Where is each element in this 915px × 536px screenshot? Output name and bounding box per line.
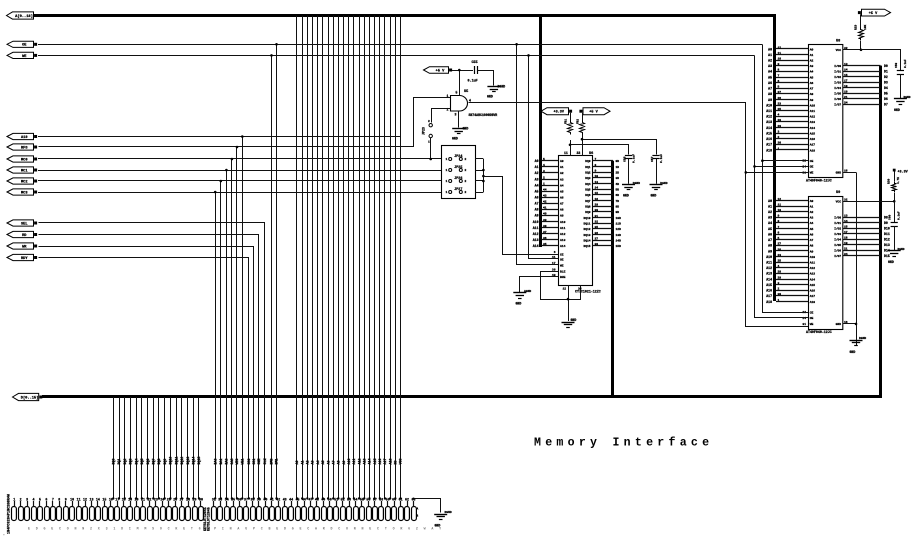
connector pad 24 — [161, 507, 166, 521]
junction — [225, 497, 227, 499]
svg-text:8D: 8D — [616, 205, 620, 208]
junction — [241, 497, 243, 499]
svg-text:OE: OE — [560, 258, 564, 261]
svg-text:A2: A2 — [810, 60, 814, 63]
svg-text:4D: 4D — [616, 183, 620, 186]
pin IO7 U9 — [843, 255, 881, 257]
connector pad 20 — [135, 507, 140, 521]
wire data bit — [198, 397, 200, 499]
svg-text:A4: A4 — [560, 184, 564, 187]
capacitor C57 — [652, 155, 659, 157]
svg-text:DQ5: DQ5 — [585, 188, 590, 191]
svg-text:DQ0: DQ0 — [585, 160, 590, 163]
junction — [482, 180, 485, 183]
wire data bit — [181, 397, 183, 499]
svg-text:I/O6: I/O6 — [834, 249, 841, 253]
junction — [389, 497, 391, 499]
pin DQ3 U6 — [593, 177, 614, 179]
pin A7 U8 — [776, 88, 808, 90]
svg-text:13D: 13D — [616, 234, 622, 237]
svg-text:SEL: SEL — [21, 222, 27, 226]
svg-text:A7: A7 — [810, 88, 814, 91]
svg-text:9: 9 — [778, 215, 780, 218]
pin IO0 U8 — [843, 65, 881, 67]
junction — [231, 497, 233, 499]
connector pad 36 — [238, 507, 243, 521]
svg-text:A16: A16 — [766, 289, 772, 293]
ground C60 — [888, 250, 901, 252]
pin A8 U6 — [542, 209, 559, 211]
svg-text:A6: A6 — [810, 233, 814, 236]
svg-text:A10: A10 — [810, 256, 816, 259]
wire RDY — [39, 258, 249, 499]
svg-text:2: 2 — [428, 120, 430, 123]
wire data bit — [113, 397, 115, 499]
pin A4 U6 — [542, 185, 559, 187]
svg-text:14D: 14D — [616, 239, 622, 242]
svg-text:5D: 5D — [616, 188, 620, 191]
svg-text:A14: A14 — [810, 278, 816, 281]
svg-text:A8: A8 — [810, 245, 814, 248]
svg-text:A8: A8 — [535, 208, 539, 212]
junction — [348, 497, 350, 499]
wire MC2 — [38, 180, 442, 182]
junction — [152, 497, 154, 499]
flag MC0 — [7, 156, 34, 162]
connector pad 9 — [64, 507, 69, 521]
wire bus bit — [359, 16, 361, 499]
capacitor C59 — [897, 70, 904, 72]
wire +5V to R29 — [860, 14, 862, 28]
flag +5V — [424, 67, 449, 74]
pin A10 U6 — [542, 221, 559, 223]
svg-text:44: 44 — [543, 188, 547, 191]
wire WE tap U8 — [755, 166, 809, 168]
pin IO5 U9 — [843, 244, 881, 246]
svg-text:GND: GND — [888, 260, 894, 264]
svg-text:3: 3 — [455, 113, 457, 117]
pin A15 U9 — [776, 284, 808, 286]
svg-text:R30: R30 — [888, 179, 891, 184]
flag MOE — [7, 41, 34, 47]
svg-text:A15: A15 — [810, 284, 816, 287]
svg-text:13: 13 — [595, 181, 599, 184]
svg-text:26: 26 — [778, 97, 782, 100]
connector pad 47 — [309, 507, 314, 521]
svg-text:A1: A1 — [535, 165, 539, 169]
pin DQ2 U6 — [593, 172, 614, 174]
svg-text:10D: 10D — [616, 217, 622, 220]
svg-text:7: 7 — [595, 158, 597, 161]
pin A14 U6 — [542, 245, 559, 247]
flag RDY — [7, 254, 34, 260]
svg-text:DQ9: DQ9 — [163, 459, 167, 465]
svg-text:OE: OE — [810, 166, 814, 169]
junction — [214, 497, 216, 499]
svg-text:DM1: DM1 — [275, 459, 279, 465]
svg-text:18: 18 — [844, 85, 848, 88]
junction — [192, 497, 194, 499]
connector pad 17 — [115, 507, 120, 521]
connector pad 7 — [51, 507, 56, 521]
pin DQ12 U6 — [593, 228, 614, 230]
pin IO3 U8 — [843, 82, 881, 84]
svg-text:A3: A3 — [535, 177, 539, 181]
pin DQ0 U6 — [593, 160, 614, 162]
svg-text:I/O4: I/O4 — [834, 238, 841, 242]
wire JP23 to MC0 — [430, 138, 432, 159]
svg-text:A4: A4 — [768, 70, 772, 74]
svg-text:7D: 7D — [616, 200, 620, 203]
junction — [745, 171, 748, 174]
connector pad 40 — [264, 507, 269, 521]
svg-text:3: 3 — [26, 497, 28, 501]
svg-text:A17: A17 — [810, 295, 816, 298]
pin DQ13 U6 — [593, 234, 614, 236]
wire data bit — [141, 397, 143, 499]
wire to C59 — [861, 50, 901, 71]
svg-text:A7: A7 — [810, 239, 814, 242]
svg-text:4: 4 — [778, 265, 780, 268]
svg-text:A12: A12 — [810, 116, 816, 119]
wire WR — [39, 247, 254, 499]
wire C57 gnd — [656, 159, 658, 184]
svg-text:10K: 10K — [864, 25, 867, 30]
svg-text:3D: 3D — [616, 177, 620, 180]
connector pad 27 — [180, 507, 185, 521]
pin DQ9 U6 — [593, 211, 614, 213]
svg-text:A11: A11 — [766, 109, 772, 113]
svg-text:1D: 1D — [616, 166, 620, 169]
svg-text:D4: D4 — [884, 86, 888, 90]
junction — [241, 135, 244, 138]
pin DQ6 U6 — [593, 194, 614, 196]
wire MC1 — [38, 170, 442, 172]
svg-text:A2: A2 — [535, 171, 539, 175]
svg-text:C57: C57 — [651, 156, 654, 162]
flag D[0..15] — [13, 393, 39, 400]
svg-text:A2: A2 — [560, 172, 564, 175]
capacitor C55 — [474, 66, 476, 74]
svg-text:7: 7 — [778, 226, 780, 229]
svg-text:15: 15 — [844, 225, 848, 228]
junction — [248, 497, 250, 499]
svg-text:DM0: DM0 — [270, 459, 274, 465]
svg-text:35: 35 — [595, 226, 599, 229]
svg-text:GND: GND — [651, 194, 657, 198]
svg-text:I/O2: I/O2 — [834, 75, 841, 79]
connector pad 50 — [328, 507, 333, 521]
svg-text:+3.3V: +3.3V — [553, 111, 564, 115]
ground U6 — [562, 322, 575, 324]
svg-text:1: 1 — [428, 141, 430, 144]
svg-text:A10: A10 — [766, 255, 772, 259]
junction — [515, 43, 518, 46]
svg-text:A9: A9 — [342, 461, 346, 465]
svg-text:11: 11 — [77, 497, 81, 501]
svg-text:CE: CE — [810, 312, 814, 315]
svg-text:BLE: BLE — [560, 270, 566, 273]
svg-text:D2: D2 — [884, 75, 888, 79]
pin VCC U8 — [843, 49, 862, 51]
svg-text:A14: A14 — [560, 245, 566, 248]
svg-text:GND: GND — [836, 323, 842, 326]
junction — [761, 159, 764, 162]
svg-text:0.1uF: 0.1uF — [898, 211, 901, 220]
svg-text:11: 11 — [564, 151, 568, 155]
svg-text:BHE: BHE — [560, 276, 566, 279]
pin A5 U6 — [542, 191, 559, 193]
svg-text:A12: A12 — [766, 266, 772, 270]
wire OE tap U8 — [762, 160, 808, 162]
svg-text:A14: A14 — [766, 277, 772, 281]
svg-text:A11: A11 — [533, 226, 539, 230]
pin 33 VCC2 — [582, 134, 584, 156]
svg-text:A4: A4 — [535, 183, 539, 187]
svg-text:OE: OE — [810, 317, 814, 320]
svg-text:D8: D8 — [884, 215, 888, 219]
svg-text:13: 13 — [89, 497, 93, 501]
svg-text:13: 13 — [844, 63, 848, 66]
svg-text:A5: A5 — [560, 190, 564, 193]
IC U9 body — [809, 197, 843, 330]
svg-text:GND: GND — [623, 194, 629, 198]
svg-text:D5: D5 — [884, 92, 888, 96]
svg-text:A17: A17 — [810, 144, 816, 147]
resistor R30 — [892, 182, 897, 193]
junction — [169, 497, 171, 499]
svg-text:A18: A18 — [766, 148, 772, 152]
svg-text:7: 7 — [52, 497, 54, 501]
connector pad 8 — [57, 507, 62, 521]
connector pad 30 — [199, 507, 204, 521]
pin IO4 U9 — [843, 239, 881, 241]
wire JP to U6 CE — [484, 177, 559, 255]
connector pad 25 — [167, 507, 172, 521]
svg-text:7: 7 — [778, 74, 780, 77]
junction — [236, 146, 239, 149]
svg-text:CLK: CLK — [263, 459, 267, 465]
svg-text:18: 18 — [844, 237, 848, 240]
ground C57 — [650, 184, 663, 186]
svg-text:A9: A9 — [810, 99, 814, 102]
svg-text:8: 8 — [58, 497, 60, 501]
svg-text:CS0: CS0 — [247, 459, 251, 465]
pin IO1 U8 — [843, 71, 881, 73]
svg-text:A6: A6 — [810, 82, 814, 85]
pin A5 U9 — [776, 228, 808, 230]
svg-text:D[0..15]: D[0..15] — [21, 395, 39, 400]
pin A16 U9 — [776, 290, 808, 292]
svg-text:CAS: CAS — [230, 459, 234, 465]
bus vertical U6 data — [611, 161, 614, 398]
pin IO0 U9 — [843, 217, 881, 219]
svg-text:A8: A8 — [768, 244, 772, 248]
wire bus bit — [364, 16, 366, 499]
pin A18 U9 — [776, 301, 808, 303]
svg-text:DQ7: DQ7 — [151, 459, 155, 465]
connector pad 1 — [12, 507, 17, 521]
svg-text:21: 21 — [844, 248, 848, 251]
wire U8 U9 gnd — [856, 172, 858, 345]
svg-text:U9: U9 — [836, 191, 840, 195]
svg-text:DQ10: DQ10 — [584, 217, 591, 220]
svg-text:D3: D3 — [884, 81, 888, 85]
junction — [399, 497, 401, 499]
svg-text:A16: A16 — [766, 137, 772, 141]
pin A16 U8 — [776, 138, 808, 140]
svg-text:43: 43 — [283, 497, 287, 501]
junction — [384, 497, 386, 499]
svg-text:A13: A13 — [533, 238, 539, 242]
svg-text:2: 2 — [465, 158, 467, 161]
ferrite bead FB1 — [568, 121, 573, 135]
svg-text:C60: C60 — [889, 215, 892, 220]
junction — [581, 138, 584, 141]
svg-text:I/O4: I/O4 — [834, 86, 841, 90]
svg-text:DQ4: DQ4 — [585, 183, 590, 186]
flag SEL — [7, 220, 34, 226]
connector pad 5 — [38, 507, 43, 521]
svg-text:A11: A11 — [560, 227, 566, 230]
svg-text:A15: A15 — [810, 132, 816, 135]
wire data bit — [158, 397, 160, 499]
pin A15 U8 — [776, 133, 808, 135]
wire bus bit — [307, 16, 309, 499]
wire data bit — [130, 397, 132, 499]
svg-text:17: 17 — [844, 80, 848, 83]
connector pad 48 — [315, 507, 320, 521]
svg-text:DQ14: DQ14 — [584, 239, 591, 242]
svg-text:U6: U6 — [589, 152, 593, 156]
connector pad 61 — [399, 507, 404, 521]
svg-text:A14: A14 — [766, 126, 772, 130]
svg-text:A18: A18 — [388, 459, 392, 465]
jumper JP23 — [429, 124, 432, 127]
connector pad 46 — [302, 507, 307, 521]
svg-text:A7: A7 — [768, 87, 772, 91]
connector pad 13 — [90, 507, 95, 521]
svg-text:I/O0: I/O0 — [834, 64, 841, 68]
pin A6 U9 — [776, 234, 808, 236]
svg-text:1: 1 — [543, 182, 545, 185]
svg-text:0.1uF: 0.1uF — [660, 154, 663, 163]
svg-text:I/O0: I/O0 — [834, 215, 841, 219]
pin A5 U8 — [776, 77, 808, 79]
wire C59 gnd — [900, 74, 902, 98]
wire drop to connector — [226, 170, 228, 499]
wire data bit — [124, 397, 126, 499]
junction — [141, 497, 143, 499]
wire MC0 — [38, 158, 442, 160]
pin stub OE — [553, 258, 559, 260]
wire OE drop to chips — [763, 45, 809, 313]
svg-text:12: 12 — [563, 288, 567, 291]
svg-text:A7: A7 — [535, 202, 539, 206]
wire drop OE — [276, 44, 278, 498]
svg-text:A15: A15 — [766, 283, 772, 287]
svg-text:A8: A8 — [337, 461, 341, 465]
svg-text:A5: A5 — [321, 461, 325, 465]
pin A12 U8 — [776, 116, 808, 118]
svg-text:U8: U8 — [836, 40, 840, 44]
svg-text:23: 23 — [778, 102, 782, 105]
pin 12 GND U6 — [568, 286, 570, 322]
svg-text:A12: A12 — [533, 232, 539, 236]
wire bus bit — [296, 16, 298, 499]
svg-text:A10: A10 — [347, 459, 351, 465]
flag MC3 — [7, 189, 34, 195]
svg-text:I/O1: I/O1 — [834, 69, 841, 73]
ground C59 — [894, 98, 907, 100]
bus A[0..18] top horizontal — [33, 14, 774, 17]
svg-text:5: 5 — [778, 86, 780, 89]
wire WE drop to chips — [755, 56, 809, 318]
wire bus bit — [390, 16, 392, 499]
junction — [332, 497, 334, 499]
wire CE tap U8 — [746, 172, 808, 174]
svg-text:13: 13 — [844, 214, 848, 217]
svg-text:30: 30 — [778, 293, 782, 296]
bus D[0..15] bottom horizontal — [42, 395, 882, 398]
svg-text:10: 10 — [70, 497, 74, 501]
svg-text:25: 25 — [778, 260, 782, 263]
svg-text:A15: A15 — [373, 459, 377, 465]
svg-text:GND: GND — [452, 137, 458, 141]
wire data bit — [147, 397, 149, 499]
wire drop to connector — [220, 181, 222, 499]
svg-text:C56: C56 — [624, 156, 627, 162]
pin IO4 U8 — [843, 87, 881, 89]
svg-text:4: 4 — [778, 114, 780, 117]
svg-text:37: 37 — [543, 231, 547, 234]
pin A3 U6 — [542, 179, 559, 181]
flag RD — [7, 231, 34, 237]
svg-text:10: 10 — [778, 209, 782, 212]
svg-text:DGND: DGND — [859, 337, 866, 340]
svg-text:14: 14 — [96, 497, 100, 501]
pin A0 U9 — [776, 200, 808, 202]
svg-text:DQ2: DQ2 — [123, 459, 127, 465]
svg-text:2: 2 — [465, 191, 467, 194]
junction — [164, 497, 166, 499]
bus vertical mid (address bus to U6) — [539, 14, 542, 247]
connector pad 49 — [322, 507, 327, 521]
svg-text:19: 19 — [844, 242, 848, 245]
junction — [118, 497, 120, 499]
svg-text:5: 5 — [39, 497, 41, 501]
svg-text:1: 1 — [446, 169, 448, 172]
junction — [175, 497, 177, 499]
bus vertical U8/U9 data — [879, 66, 882, 398]
svg-text:MC1: MC1 — [21, 169, 27, 173]
svg-text:A8: A8 — [560, 209, 564, 212]
wire bus bit — [312, 16, 314, 499]
junction — [368, 497, 370, 499]
svg-text:38: 38 — [595, 243, 599, 246]
svg-text:A13: A13 — [810, 121, 816, 124]
svg-text:A5: A5 — [810, 76, 814, 79]
connector pad 19 — [128, 507, 133, 521]
svg-text:36: 36 — [595, 232, 599, 235]
connector pad 53 — [347, 507, 352, 521]
connector pad 33 — [218, 507, 223, 521]
svg-text:36: 36 — [238, 497, 242, 501]
svg-text:A0: A0 — [535, 159, 539, 163]
pin IO6 U9 — [843, 250, 881, 252]
svg-text:16: 16 — [595, 198, 599, 201]
pin IO1 U9 — [843, 222, 881, 224]
